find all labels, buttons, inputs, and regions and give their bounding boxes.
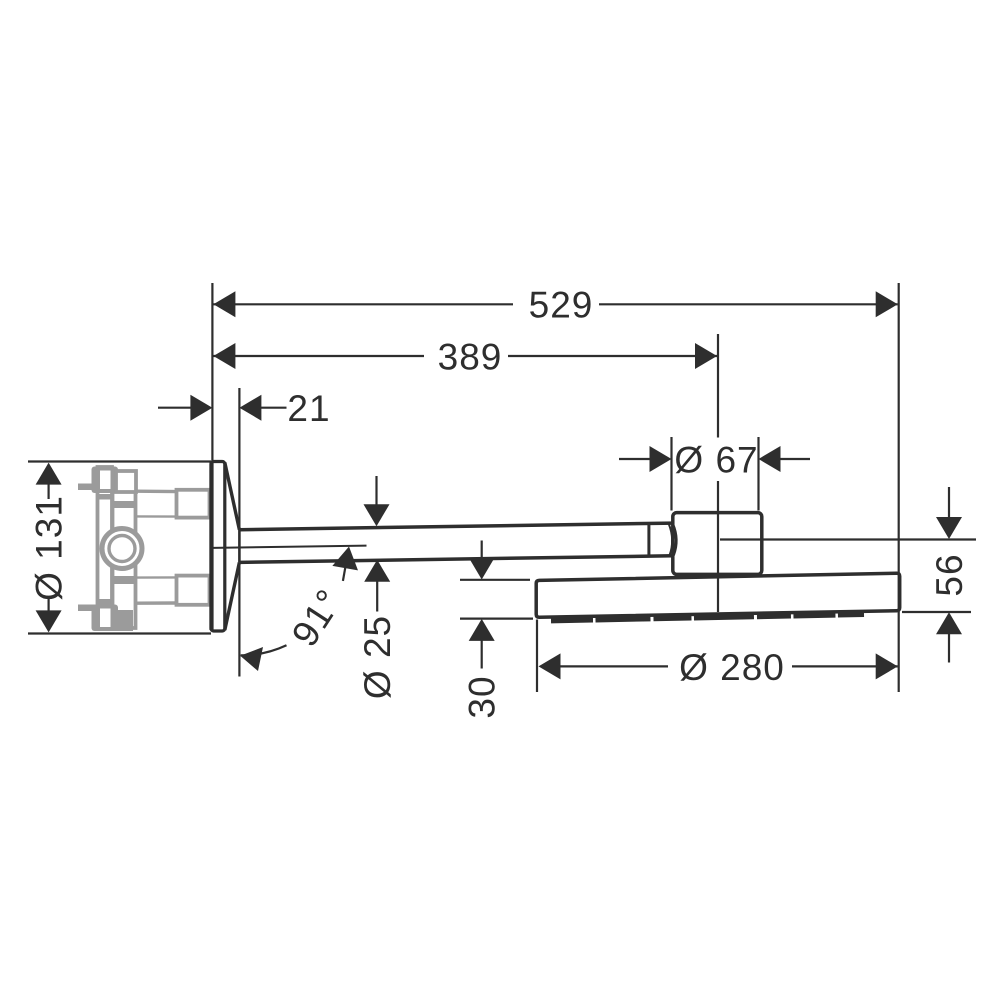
- shower arm end cap line: [647, 524, 650, 556]
- svg-text:Ø 67: Ø 67: [674, 440, 758, 481]
- dim 56 up arrow stem: [948, 633, 950, 663]
- dim 389 line right segment: [508, 355, 717, 357]
- gray bottom-left block: [92, 605, 119, 632]
- shower head plate: [536, 573, 900, 617]
- angle 91 reference line: [238, 564, 240, 677]
- dim 389 right arrow: [695, 343, 717, 369]
- dim Ø67 right tail: [779, 458, 810, 460]
- dim Ø280 line right segment: [792, 665, 898, 667]
- svg-text:Ø 25: Ø 25: [357, 615, 398, 699]
- gray top pipe fitting: [177, 490, 210, 518]
- dim Ø25 up arrow stem: [376, 581, 378, 612]
- gray bottom block right: [114, 610, 133, 631]
- dim 30 down arrow: [469, 558, 495, 580]
- centerline lower part: [717, 481, 719, 612]
- dim Ø67 right extension: [757, 437, 759, 511]
- dim 529 line left segment: [213, 303, 513, 305]
- angle 91 arc arrow: [240, 647, 263, 671]
- gray bottom pipe fitting: [177, 576, 210, 605]
- gray column band upper: [113, 501, 136, 508]
- dim 56 lower leader: [902, 611, 971, 613]
- left main extension line: [211, 283, 213, 461]
- dim 529 right arrow: [876, 291, 898, 317]
- dim Ø25 up arrow: [364, 560, 390, 582]
- dim Ø131 lower stem: [47, 597, 49, 613]
- svg-text:Ø 280: Ø 280: [679, 647, 785, 688]
- concealed installation body (gray): [78, 467, 210, 632]
- dim Ø280 left arrow: [539, 653, 561, 679]
- gray column band lower: [113, 576, 136, 584]
- dim Ø67 left extension: [670, 437, 672, 511]
- dim 56 down arrow: [936, 517, 962, 539]
- dim Ø131 down arrow: [36, 610, 62, 632]
- dim 30 up arrow stem: [481, 640, 483, 669]
- angle 91 leader arrow: [330, 544, 362, 583]
- dim Ø67 right arrow: [759, 446, 781, 472]
- angle 91 arc: [241, 645, 287, 655]
- dim Ø67 left arrow: [650, 446, 672, 472]
- svg-text:Ø 131: Ø 131: [29, 495, 70, 601]
- shower arm bottom edge: [239, 556, 673, 563]
- escutcheon cone upper face: [225, 463, 240, 530]
- centerline through connector and head: [717, 334, 719, 438]
- dim Ø25 down arrow: [364, 504, 390, 526]
- gray bottom pipe lower edge: [136, 601, 177, 605]
- spray nozzle band: [551, 614, 864, 620]
- right main extension line: [898, 283, 900, 692]
- dim 21 left arrow: [190, 395, 212, 421]
- dim Ø280 right arrow: [876, 653, 898, 679]
- dim Ø131 up arrow: [36, 463, 62, 485]
- dim Ø67 left tail: [619, 458, 652, 460]
- escutcheon plate: [211, 462, 225, 632]
- gray top pipe upper edge: [136, 490, 177, 494]
- svg-text:389: 389: [438, 337, 503, 378]
- dim 529 left arrow: [213, 291, 235, 317]
- gray left rail: [98, 467, 113, 627]
- connector block: [673, 513, 762, 575]
- gray top block right: [116, 471, 136, 492]
- gray rail band bottom: [98, 599, 113, 605]
- dim 389 line left segment: [213, 355, 424, 357]
- escutcheon cone lower face: [225, 562, 240, 630]
- gray top pipe lower edge: [136, 515, 177, 518]
- dim 30 lower extension: [460, 617, 533, 619]
- svg-text:21: 21: [287, 388, 330, 429]
- dim 30 down arrow stem: [481, 541, 483, 561]
- dim Ø280 line left segment: [559, 665, 668, 667]
- shower arm top edge: [239, 523, 673, 530]
- dim 56 down arrow stem: [948, 487, 950, 519]
- svg-text:30: 30: [462, 675, 503, 718]
- dim 21 right arrow: [239, 395, 261, 421]
- gray rail band top: [98, 494, 113, 500]
- gray top-left block: [92, 467, 119, 494]
- svg-text:56: 56: [929, 553, 970, 596]
- dim Ø280 left extension: [536, 620, 538, 693]
- dim 56 up arrow: [936, 612, 962, 634]
- dim 56 upper leader: [720, 538, 976, 540]
- gray bottom pipe upper edge: [136, 576, 177, 579]
- gray inner circle: [109, 536, 135, 562]
- extension line x239 for 21: [238, 388, 240, 530]
- dim 21 right tail: [260, 407, 287, 409]
- gray central column: [113, 472, 136, 629]
- escutcheon plate left edge thick: [209, 463, 213, 631]
- svg-text:529: 529: [529, 285, 594, 326]
- gray wall stub bottom: [78, 605, 95, 612]
- dim 529 line right segment: [599, 303, 898, 305]
- dim Ø131 top extension line: [28, 460, 211, 462]
- arm ball cap outer curve: [673, 524, 677, 555]
- dim Ø131 bottom extension line: [28, 632, 211, 634]
- dim 389 left arrow: [213, 343, 235, 369]
- gray top-left block slot: [100, 471, 111, 490]
- arm axis reference line: [214, 546, 367, 548]
- dim 30 up arrow: [469, 619, 495, 641]
- arm ball cap inner curve: [669, 524, 672, 555]
- dim 30 upper extension: [460, 579, 530, 581]
- dim 21 left tail: [158, 407, 192, 409]
- gray bottom-left block slot: [100, 609, 111, 628]
- dim Ø25 down arrow stem: [375, 476, 377, 506]
- gray wall stub top: [78, 484, 95, 491]
- dim Ø131 upper stem: [47, 484, 49, 500]
- gray outer circle: [102, 529, 142, 569]
- escutcheon cone right face: [238, 530, 241, 563]
